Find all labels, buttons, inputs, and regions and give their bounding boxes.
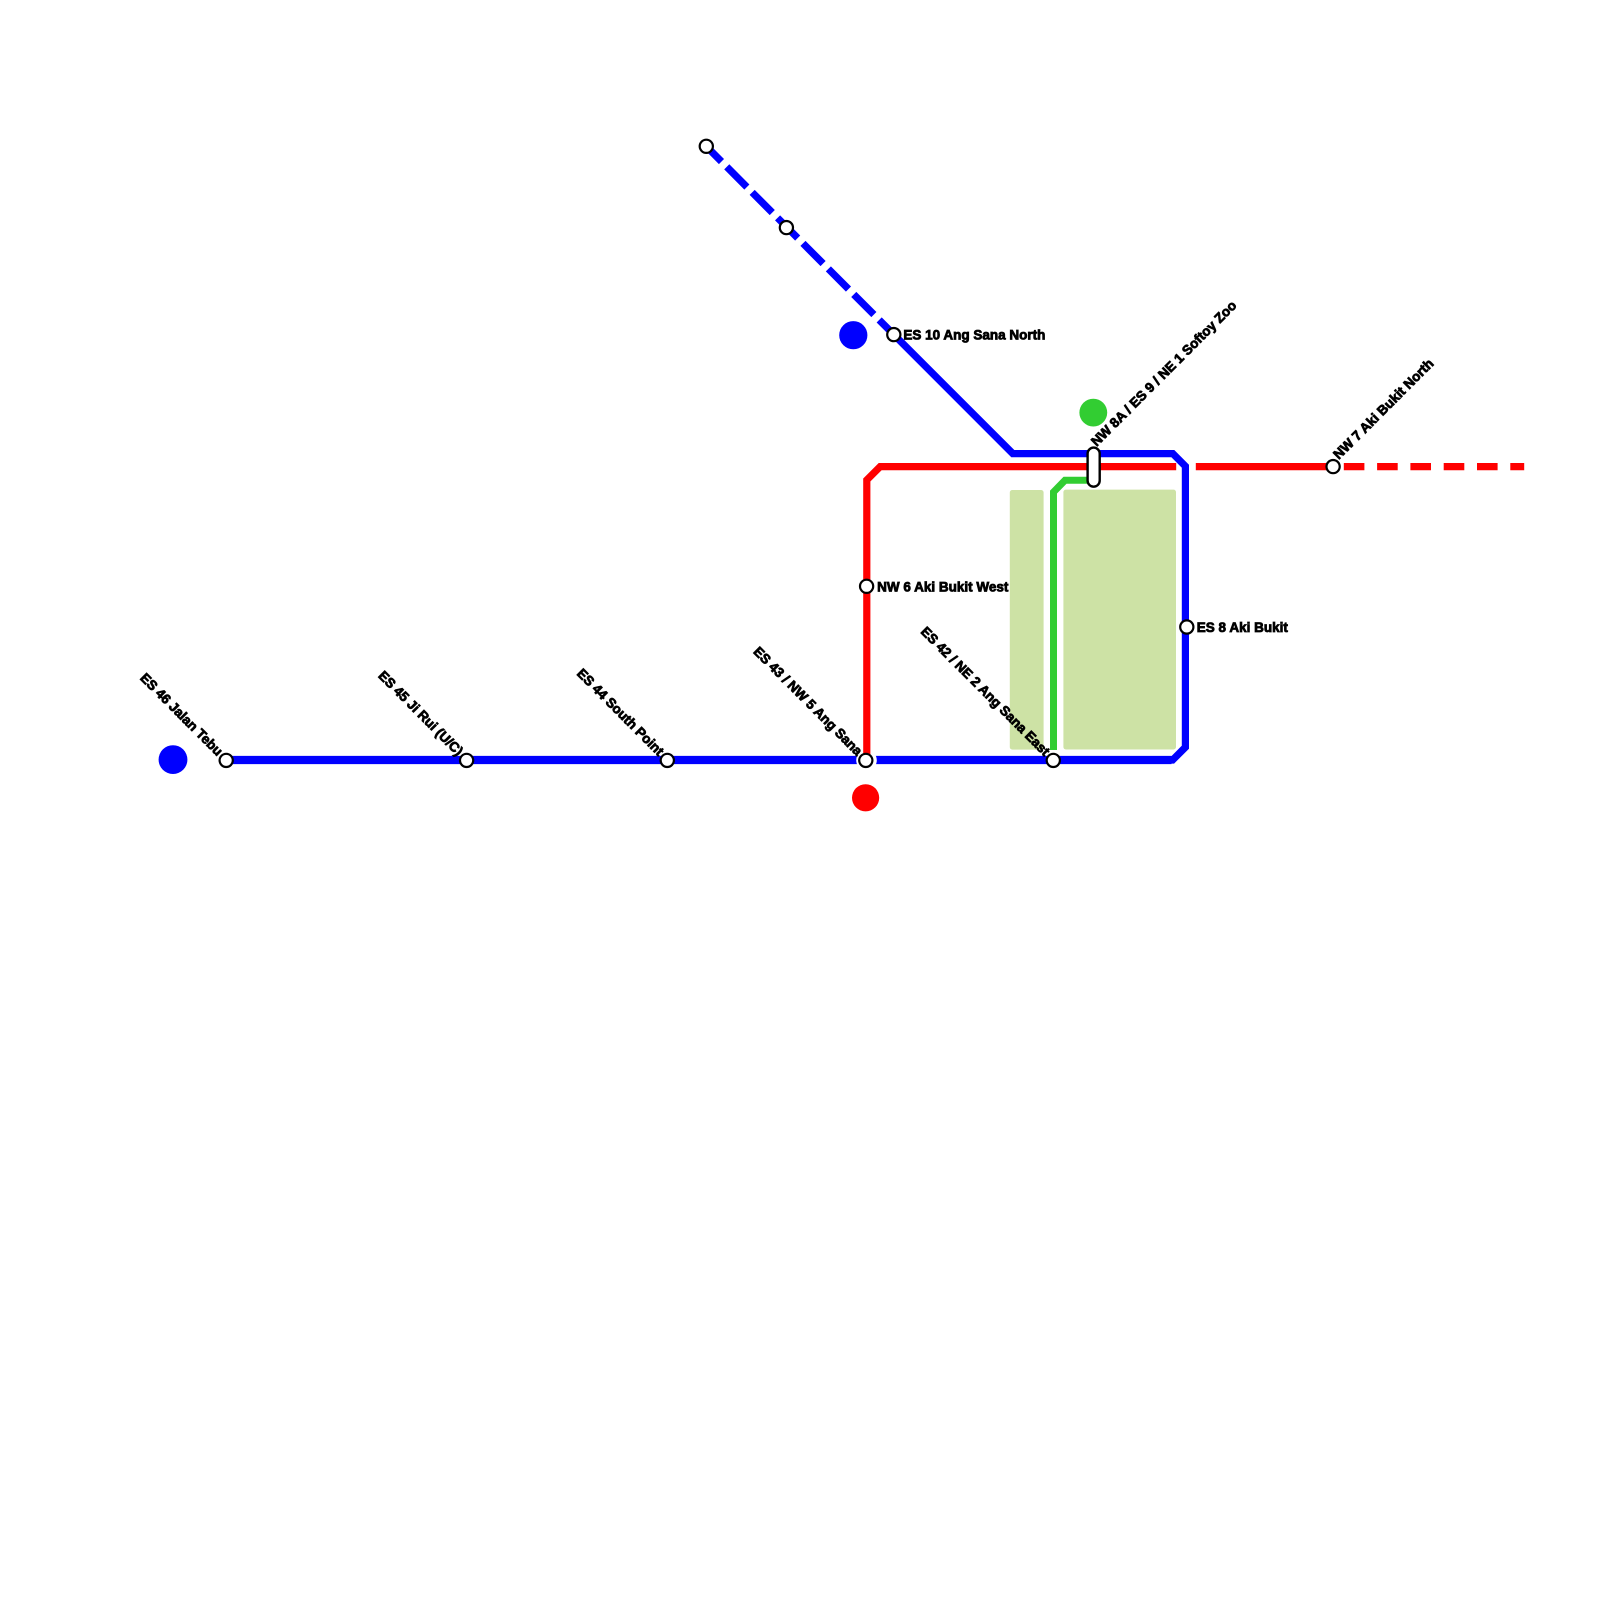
station ES 45 Ji Rui (U/C) [460,754,473,767]
NW line terminus dot (below ES 43) [852,784,879,811]
svg-text:NW 6 Aki Bukit West: NW 6 Aki Bukit West [877,579,1009,594]
svg-text:ES 10 Ang Sana North: ES 10 Ang Sana North [903,327,1045,342]
station ES 46 Jalan Tebu [220,754,233,767]
red line NW vertical+top segment [867,467,1176,760]
station ES 10 Ang Sana North [887,328,900,341]
blue line ES bottom straight segment [226,756,1171,764]
station ES 43 / NW 5 Ang Sana [859,754,872,767]
interchange station NW 8A / ES 9 / NE 1 Softoy Zoo (pill) [1088,448,1100,487]
blue line ES dashed section [706,146,894,334]
station NW 6 Aki Bukit West [860,580,873,593]
red line NW dashed extension [1344,463,1524,470]
station ES 44 South Point [661,754,674,767]
NE line terminus dot (above Softoy Zoo) [1079,399,1107,427]
ES line terminus dot (bottom left, near ES 46) [159,745,188,774]
blue line ES main loop [894,335,1186,760]
station (future, top of dashed line) [700,140,713,153]
svg-text:ES 8 Aki Bukit: ES 8 Aki Bukit [1197,620,1289,635]
station (future, mid dashed line) [780,221,793,234]
white casing halo under interchange station ES 43 / NW 5 [856,750,877,771]
park area left strip [1010,490,1044,750]
green line NE [1054,480,1097,750]
red line NW segment right of blue crossing [1196,463,1338,470]
station ES 42 / NE 2 Ang Sana East [1047,754,1060,767]
station ES 8 Aki Bukit [1180,620,1193,633]
station NW 7 Aki Bukit North [1327,460,1340,473]
ES line terminus dot (top, near ES 10) [839,321,867,349]
park area right block [1063,490,1176,750]
